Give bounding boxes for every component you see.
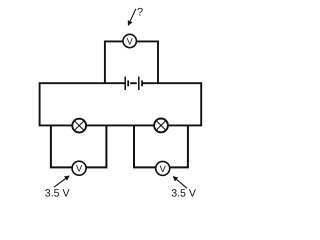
lamp L2 (right, circle with X) [154,119,168,133]
battery B1 short plate of cell 1 [127,80,129,86]
svg-text:V: V [160,164,167,174]
wire: top rail left segment (left node to battery long plate) [40,82,125,84]
wire: top voltmeter branch (up from top rail, across through V1, back down) [105,41,158,83]
svg-text:?: ? [137,6,143,18]
svg-text:3.5 V: 3.5 V [171,188,197,200]
wire: top rail right segment (battery short plate to right node) [143,82,201,84]
wire: right side of main loop [200,82,202,125]
wire: bottom rail through both lamps [39,124,202,126]
svg-text:V: V [127,36,134,46]
svg-text:V: V [76,164,83,174]
battery B1 (two cells) long plate of cell 1 [124,77,126,90]
annotation arrow pointing to voltmeter V2 [54,176,69,187]
svg-text:3.5 V: 3.5 V [45,188,71,200]
wire: link between battery cells [130,82,137,84]
battery B1 long plate of cell 2 [138,77,140,90]
wire: left lamp parallel branch (down, across through V2, up) [51,125,107,167]
lamp L1 (left, circle with X) [72,119,86,133]
annotation arrow pointing to voltmeter V1 [128,9,136,25]
wire: right lamp parallel branch (down, across through V3, up) [134,125,188,167]
voltmeter V3 (bottom right) [156,161,170,175]
voltmeter V2 (bottom left) [72,161,86,175]
wire: left side of main loop [39,82,41,125]
annotation arrow pointing to voltmeter V3 [173,177,187,189]
battery B1 short plate of cell 2 [141,80,143,86]
voltmeter V1 (top, unknown reading) [123,34,136,47]
